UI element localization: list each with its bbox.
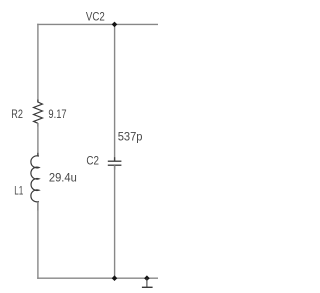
svg-text:R2: R2 xyxy=(11,108,23,122)
capacitor C2 xyxy=(108,160,122,162)
svg-text:C2: C2 xyxy=(86,155,99,168)
svg-text:537p: 537p xyxy=(118,131,143,143)
wire top horizontal xyxy=(37,23,158,25)
svg-text:9.17: 9.17 xyxy=(48,108,66,121)
wire left rail middle xyxy=(37,123,39,156)
ground xyxy=(146,278,148,287)
svg-text:VC2: VC2 xyxy=(86,11,105,24)
svg-text:L1: L1 xyxy=(14,185,23,198)
capacitor C2 pin stubs xyxy=(114,157,116,161)
inductor L1 pin stubs xyxy=(37,153,39,157)
wire right rail upper xyxy=(114,24,116,161)
wire left rail lower xyxy=(37,202,39,279)
node ground junction diamond xyxy=(144,275,150,281)
svg-text:29.4u: 29.4u xyxy=(49,172,77,184)
inductor L1 xyxy=(31,156,39,202)
resistor R2 pin stubs xyxy=(37,100,39,103)
node bottom junction diamond xyxy=(112,275,118,281)
wire left rail upper xyxy=(37,24,39,103)
resistor R2 xyxy=(34,102,43,123)
node VC2 junction diamond xyxy=(112,22,118,28)
wire right rail lower xyxy=(114,165,116,278)
wire bottom horizontal xyxy=(37,277,158,279)
